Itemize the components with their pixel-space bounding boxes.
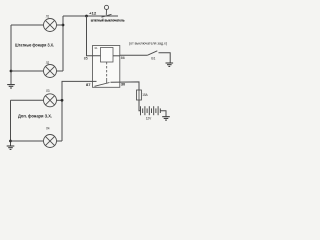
switch SA stock (штатный выключатель) — [102, 5, 112, 17]
svg-text:Л4: Л4 — [46, 127, 50, 131]
contact blade — [106, 80, 108, 84]
wire left vertical (lower) x=10.5 — [10, 100, 12, 145]
node +12 junction dot — [85, 15, 88, 18]
lamp L4 — [44, 135, 57, 148]
svg-text:(от выключателя зад.х): (от выключателя зад.х) — [129, 42, 167, 46]
svg-text:Л1: Л1 — [46, 15, 50, 19]
node L2 junction — [10, 70, 13, 73]
wire L2 left — [11, 70, 44, 72]
lamp L1 — [44, 19, 57, 32]
wire coil to pin 86 — [113, 55, 120, 57]
wire left vertical (upper) x=11 — [10, 25, 12, 84]
wire L3 left — [11, 99, 44, 101]
wire pin30 to fuse — [111, 82, 140, 90]
svg-text:штатный выключатель: штатный выключатель — [91, 19, 125, 23]
wire 87 branch: corner at (62,81.3) — [62, 81, 97, 141]
switch S1 — [147, 51, 157, 56]
wire L4 left — [11, 140, 44, 142]
ground (lower-left) — [7, 146, 15, 149]
svg-text:Доп. фонари З.Х.: Доп. фонари З.Х. — [18, 114, 52, 119]
relay K1 box — [93, 46, 120, 88]
wire fuse to battery — [139, 100, 141, 111]
wire coil feed: vertical x=86.5 then right into relay — [87, 16, 101, 56]
wire L1 right — [57, 24, 64, 26]
lamp L2 — [44, 65, 57, 78]
svg-text:Л2: Л2 — [46, 61, 50, 65]
svg-text:85: 85 — [84, 56, 88, 60]
svg-text:30: 30 — [121, 83, 125, 87]
lamp L3 — [44, 94, 57, 107]
wire top bus y=16 from node A to switch — [63, 15, 118, 17]
ground (battery minus) — [162, 117, 170, 120]
wire S1 to ground — [159, 53, 171, 63]
relay coil — [101, 48, 114, 63]
armature dashed link — [106, 62, 108, 80]
wire L4 right — [57, 140, 63, 142]
svg-text:87: 87 — [86, 83, 91, 87]
node L4 junction left — [9, 140, 12, 143]
node L1 junction — [62, 24, 65, 27]
wire L3 right — [57, 99, 63, 101]
wire L2 right — [57, 70, 64, 72]
svg-text:86: 86 — [121, 56, 125, 60]
wire vertical bus A x=63 — [62, 16, 64, 71]
wire L1 left — [11, 24, 44, 26]
svg-text:Л3: Л3 — [46, 89, 50, 93]
wire battery to ground — [160, 111, 166, 117]
ground (upper-left) — [7, 85, 15, 88]
svg-text:+12: +12 — [89, 12, 96, 16]
svg-text:Штатные фонари З.Х.: Штатные фонари З.Х. — [15, 42, 54, 47]
wire coil 86 to switch S1 — [120, 54, 148, 56]
svg-text:15A: 15A — [142, 93, 148, 97]
svg-text:12V: 12V — [146, 117, 152, 121]
fuse F1 — [137, 90, 142, 100]
battery GB1 12V — [141, 106, 161, 115]
ground (right of S1) — [166, 63, 174, 66]
node L3 junction — [61, 99, 64, 102]
svg-text:В1: В1 — [151, 57, 155, 61]
